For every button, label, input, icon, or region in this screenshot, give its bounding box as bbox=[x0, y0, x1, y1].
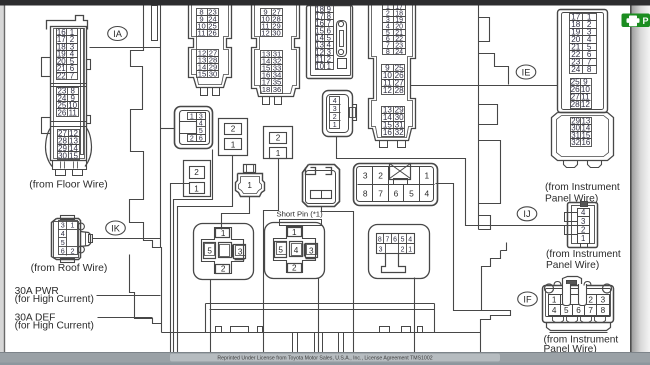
svg-text:IF: IF bbox=[523, 294, 532, 304]
wire connector L pin4 down to box staircase bbox=[436, 184, 511, 333]
svg-text:1: 1 bbox=[552, 295, 557, 304]
svg-text:2: 2 bbox=[190, 135, 194, 142]
connector K castellated bbox=[303, 165, 340, 207]
connector H 6-pin bbox=[175, 107, 213, 149]
svg-text:(from Roof Wire): (from Roof Wire) bbox=[31, 263, 108, 274]
connector IK (from Roof Wire) bbox=[52, 216, 93, 263]
wire right outline down to page bottom bbox=[480, 333, 482, 353]
svg-text:3: 3 bbox=[363, 171, 368, 181]
svg-text:1: 1 bbox=[71, 221, 75, 230]
svg-text:1: 1 bbox=[221, 229, 226, 238]
svg-text:3: 3 bbox=[333, 106, 337, 113]
svg-text:24: 24 bbox=[571, 65, 581, 74]
svg-text:IJ: IJ bbox=[523, 209, 530, 219]
svg-text:IE: IE bbox=[522, 67, 531, 77]
label IF ellipse bbox=[518, 292, 538, 306]
relay box pair 2 bbox=[264, 127, 293, 159]
svg-text:3: 3 bbox=[379, 247, 383, 254]
svg-text:(from Floor Wire): (from Floor Wire) bbox=[29, 180, 108, 191]
svg-text:(from Instrument: (from Instrument bbox=[545, 182, 620, 193]
relay box pair 3 bbox=[184, 161, 211, 197]
svg-text:2: 2 bbox=[588, 295, 593, 304]
connector IA (from Floor Wire) bbox=[42, 16, 92, 176]
svg-text:3: 3 bbox=[238, 248, 243, 257]
svg-text:15: 15 bbox=[198, 69, 207, 78]
svg-text:4: 4 bbox=[333, 98, 337, 105]
svg-text:1: 1 bbox=[327, 62, 331, 71]
svg-text:2: 2 bbox=[231, 125, 236, 134]
relay socket left bbox=[194, 224, 254, 280]
svg-text:5: 5 bbox=[199, 128, 203, 135]
connector E small 4-pin bbox=[323, 91, 357, 137]
svg-text:4: 4 bbox=[408, 237, 412, 244]
svg-text:7: 7 bbox=[70, 72, 74, 81]
wire relay pair 1 down bbox=[178, 156, 233, 353]
wire relay socket right down bbox=[318, 279, 320, 353]
connector F top-row tall bbox=[369, 4, 416, 148]
hanging tab top left of box outline bbox=[152, 6, 158, 41]
junction box long vertical line bbox=[161, 6, 162, 333]
svg-text:1: 1 bbox=[247, 181, 252, 190]
svg-text:8: 8 bbox=[587, 65, 592, 74]
connector D top-row with latch bbox=[307, 5, 353, 79]
svg-text:15: 15 bbox=[69, 151, 78, 160]
svg-text:10: 10 bbox=[315, 62, 324, 71]
relay socket right short-pin bbox=[265, 223, 325, 279]
svg-text:1: 1 bbox=[276, 149, 281, 158]
svg-text:1: 1 bbox=[424, 171, 429, 181]
svg-text:1: 1 bbox=[231, 140, 236, 149]
svg-text:28: 28 bbox=[571, 100, 581, 109]
svg-text:5: 5 bbox=[401, 237, 405, 244]
svg-text:8: 8 bbox=[378, 237, 382, 244]
svg-text:22: 22 bbox=[57, 72, 66, 81]
svg-text:2: 2 bbox=[71, 247, 75, 256]
bottom status bar bbox=[0, 352, 650, 365]
svg-text:32: 32 bbox=[571, 138, 580, 147]
connector C top-row bbox=[252, 6, 300, 105]
svg-text:3: 3 bbox=[581, 217, 585, 226]
wire connector T down bbox=[414, 278, 416, 353]
svg-text:3: 3 bbox=[601, 295, 606, 304]
connector L 8-pin wide bbox=[354, 164, 438, 206]
svg-text:P: P bbox=[642, 16, 648, 26]
wire relay socket left down bbox=[210, 280, 212, 353]
svg-text:12: 12 bbox=[581, 100, 591, 109]
svg-text:1: 1 bbox=[194, 184, 199, 193]
svg-text:12: 12 bbox=[261, 28, 270, 37]
svg-text:2: 2 bbox=[194, 168, 199, 177]
svg-text:5: 5 bbox=[278, 246, 283, 255]
svg-text:1: 1 bbox=[581, 234, 585, 243]
wire cap connector J to relay pin 1 bbox=[222, 197, 250, 230]
svg-text:8: 8 bbox=[386, 49, 390, 56]
svg-text:6: 6 bbox=[394, 189, 399, 199]
svg-text:30: 30 bbox=[209, 69, 218, 78]
wire relay pair 2 down between relays bbox=[264, 159, 279, 353]
svg-text:6: 6 bbox=[393, 237, 397, 244]
cap connector J bbox=[236, 165, 265, 197]
connector B top-row bbox=[189, 6, 232, 96]
svg-text:IK: IK bbox=[111, 223, 121, 233]
junction box left outline upper staircase bbox=[130, 6, 161, 248]
svg-text:4: 4 bbox=[424, 189, 429, 199]
svg-text:3: 3 bbox=[309, 247, 314, 256]
short pin bracket bbox=[280, 220, 322, 226]
svg-text:5: 5 bbox=[207, 247, 212, 256]
svg-text:16: 16 bbox=[582, 138, 591, 147]
svg-text:18: 18 bbox=[262, 85, 271, 94]
relay box pair 1 bbox=[219, 119, 248, 156]
label IJ ellipse bbox=[517, 207, 537, 221]
wire 30A PWR bbox=[97, 295, 161, 297]
svg-text:4: 4 bbox=[552, 306, 557, 315]
connector IJ 4-pin bbox=[565, 202, 598, 248]
svg-text:1: 1 bbox=[292, 228, 297, 237]
green print button bbox=[622, 14, 650, 28]
svg-text:1: 1 bbox=[333, 122, 337, 129]
connector G IE right side (from Instrument Panel Wire) bbox=[552, 10, 614, 168]
svg-text:30: 30 bbox=[58, 151, 67, 160]
svg-text:2: 2 bbox=[401, 247, 405, 254]
svg-text:32: 32 bbox=[395, 128, 405, 137]
svg-text:11: 11 bbox=[198, 28, 206, 37]
svg-text:2: 2 bbox=[378, 171, 383, 181]
wire IA to box outline bbox=[90, 47, 161, 49]
svg-text:(for High Current): (for High Current) bbox=[15, 294, 94, 305]
wire from H down-left bbox=[174, 150, 213, 353]
svg-text:6: 6 bbox=[61, 246, 65, 255]
svg-text:(from Instrument: (from Instrument bbox=[546, 249, 621, 260]
svg-text:7: 7 bbox=[385, 237, 389, 244]
svg-text:IA: IA bbox=[113, 29, 123, 39]
junction box right stepped outline bbox=[479, 6, 509, 311]
bus bar outline bbox=[162, 304, 481, 333]
svg-text:24: 24 bbox=[395, 49, 403, 56]
svg-text:5: 5 bbox=[409, 189, 414, 199]
wire relay pair 3 down bbox=[171, 184, 190, 353]
svg-text:2: 2 bbox=[333, 114, 337, 121]
wire connector K via short-pin route to bus bbox=[322, 207, 354, 353]
svg-text:8: 8 bbox=[601, 306, 606, 315]
svg-text:26: 26 bbox=[57, 108, 66, 117]
bus tabs bbox=[216, 327, 423, 333]
svg-text:1: 1 bbox=[190, 113, 194, 120]
browser top bar bbox=[0, 0, 650, 6]
svg-text:Short Pin (*1): Short Pin (*1) bbox=[277, 209, 324, 218]
svg-text:8: 8 bbox=[363, 189, 368, 199]
svg-text:7: 7 bbox=[588, 306, 593, 315]
svg-text:7: 7 bbox=[378, 189, 383, 199]
svg-text:11: 11 bbox=[69, 108, 78, 117]
wire 30A DEF bbox=[98, 317, 153, 319]
svg-text:28: 28 bbox=[395, 86, 405, 95]
label IE ellipse bbox=[516, 65, 536, 79]
svg-text:30: 30 bbox=[272, 28, 281, 37]
svg-text:4: 4 bbox=[199, 121, 203, 128]
svg-text:5: 5 bbox=[564, 306, 569, 315]
svg-text:26: 26 bbox=[208, 28, 217, 37]
bus legs below bbox=[293, 333, 344, 353]
svg-text:36: 36 bbox=[273, 85, 282, 94]
svg-text:12: 12 bbox=[383, 86, 393, 95]
left gutter bbox=[0, 6, 4, 353]
svg-text:(for High Current): (for High Current) bbox=[15, 320, 94, 331]
svg-text:Reprinted Under License from T: Reprinted Under License from Toyota Moto… bbox=[217, 356, 432, 362]
svg-text:4: 4 bbox=[294, 246, 299, 255]
svg-text:2: 2 bbox=[221, 264, 226, 273]
wire IK to box outline bbox=[93, 238, 161, 240]
svg-text:Panel Wire): Panel Wire) bbox=[546, 260, 599, 271]
svg-text:6: 6 bbox=[199, 135, 203, 142]
svg-text:3: 3 bbox=[199, 113, 203, 120]
svg-text:6: 6 bbox=[576, 306, 581, 315]
connector T keystone bbox=[369, 225, 430, 279]
svg-text:2: 2 bbox=[292, 263, 297, 272]
svg-text:1: 1 bbox=[408, 247, 412, 254]
junction box left outline lower staircase bbox=[130, 255, 162, 324]
wire from connector E to IJ bbox=[337, 137, 565, 226]
label IA ellipse bbox=[108, 27, 128, 41]
svg-text:2: 2 bbox=[276, 133, 281, 142]
wire H to box outline bbox=[161, 128, 175, 130]
label IK ellipse bbox=[106, 221, 126, 235]
horizontal wire under IE bbox=[411, 85, 558, 87]
svg-text:16: 16 bbox=[383, 128, 393, 137]
connector IF 8-pin bbox=[543, 277, 614, 333]
